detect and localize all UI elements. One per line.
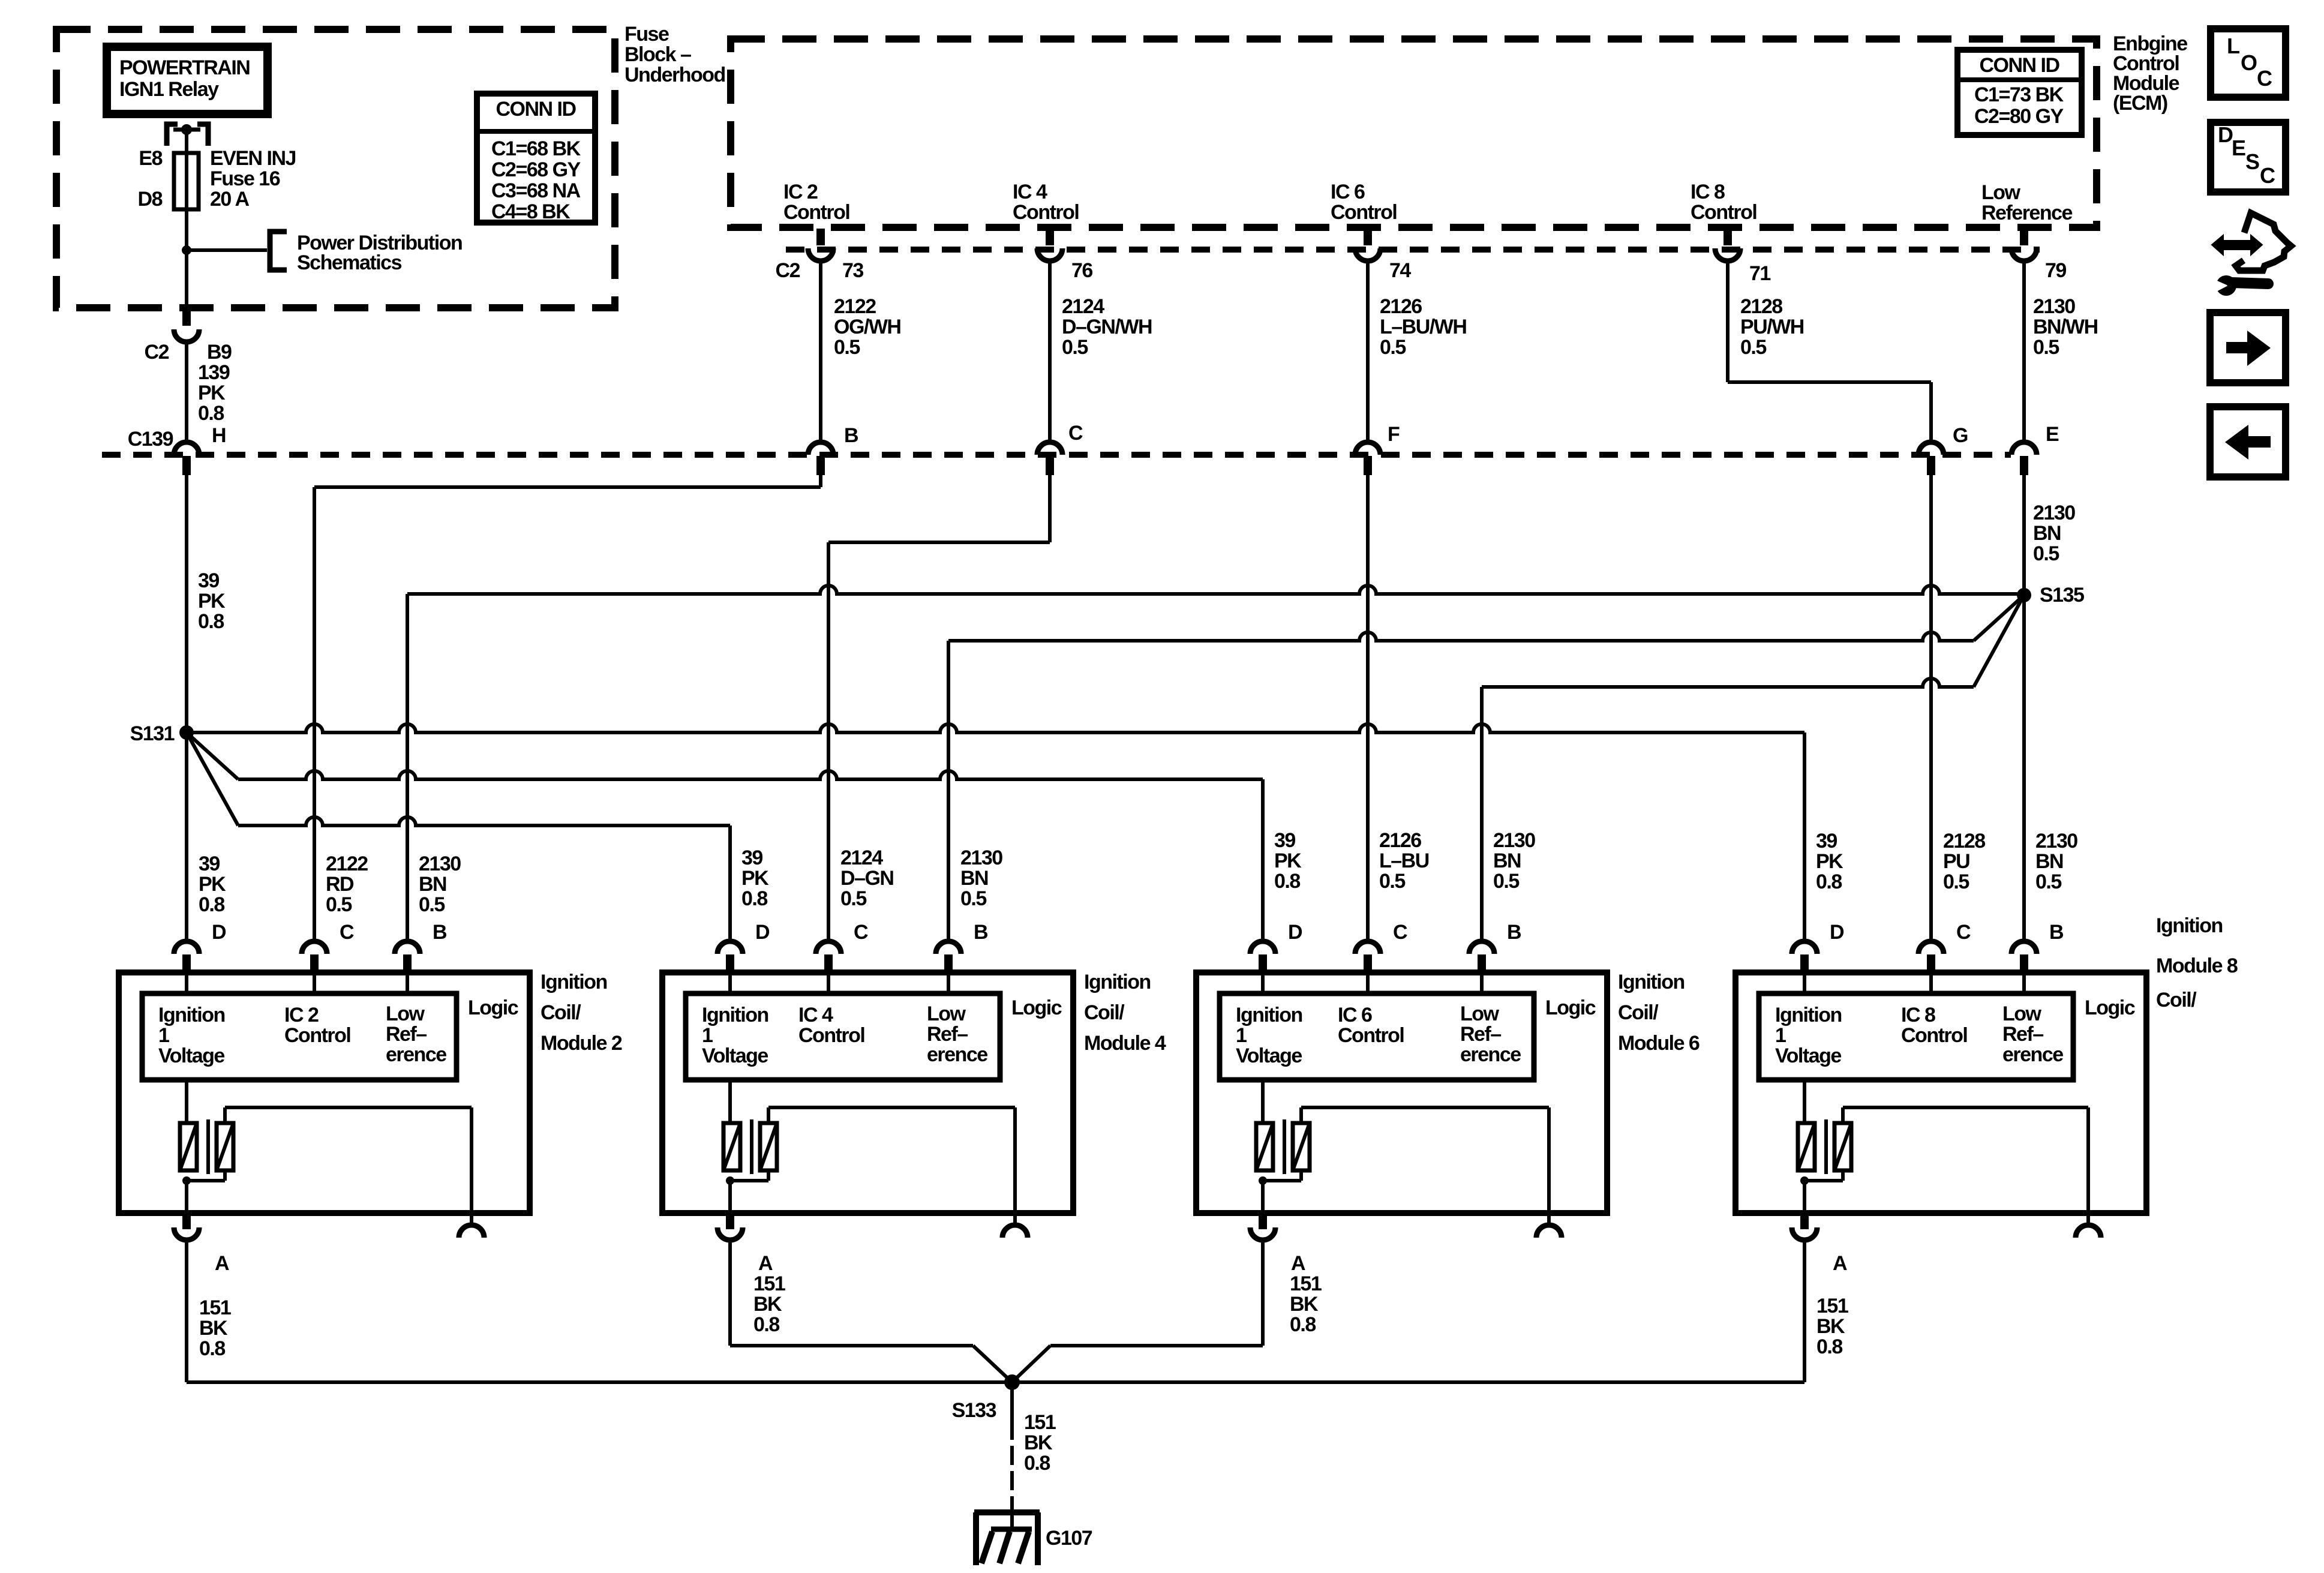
svg-text:IC 2: IC 2	[284, 1004, 319, 1026]
svg-text:2130: 2130	[2035, 830, 2077, 852]
svg-text:C: C	[1068, 422, 1083, 445]
svg-text:BN: BN	[960, 867, 988, 890]
svg-text:2122: 2122	[834, 295, 876, 318]
svg-text:C2=68 GY: C2=68 GY	[491, 158, 581, 181]
node relay output	[181, 124, 192, 135]
coil core module 2	[206, 1119, 210, 1174]
svg-text:A: A	[758, 1252, 773, 1275]
svg-text:2130: 2130	[419, 852, 461, 875]
svg-text:C1=73 BK: C1=73 BK	[1974, 83, 2064, 106]
wire 139 PK from fuse block	[185, 342, 188, 442]
svg-text:H: H	[212, 424, 226, 447]
wire 39 PK S131 to module6 D	[187, 733, 238, 779]
module 4 pin D connector	[717, 941, 743, 954]
svg-text:Coil/: Coil/	[1084, 1001, 1125, 1024]
wire 151 BK module8 A down	[1803, 1240, 1806, 1382]
svg-text:Logic: Logic	[1545, 996, 1596, 1019]
svg-text:S131: S131	[130, 722, 175, 745]
module 4 pin A connector	[726, 1213, 734, 1229]
svg-text:B: B	[2049, 921, 2064, 944]
svg-text:Control: Control	[1338, 1024, 1404, 1047]
module 8 logic block	[1803, 972, 1806, 993]
wire secondary bottom junction module 2	[223, 1170, 227, 1181]
svg-text:71: 71	[1749, 262, 1770, 285]
svg-text:E8: E8	[139, 147, 162, 170]
svg-text:B: B	[1507, 921, 1521, 944]
ignition coil/module 4	[662, 972, 1073, 1213]
wire 39 PK S131 to module8 D	[187, 724, 1804, 733]
ECM CONN ID table	[1957, 50, 2082, 135]
svg-text:PU/WH: PU/WH	[1740, 316, 1804, 338]
svg-text:Ignition: Ignition	[158, 1004, 225, 1026]
coil secondary winding module 8	[1834, 1123, 1851, 1170]
module 2 logic block	[185, 972, 188, 993]
node fuse output junction	[182, 245, 191, 255]
svg-text:2126: 2126	[1380, 295, 1422, 318]
wire 151 BK S133 to ground	[1010, 1389, 1014, 1440]
module 8 pin C connector	[1918, 941, 1944, 954]
svg-text:Control: Control	[1901, 1024, 1967, 1047]
ECM pin 73 connector	[816, 229, 825, 245]
svg-text:39: 39	[741, 846, 762, 869]
svg-text:151: 151	[199, 1296, 231, 1319]
module 4 pin B connector	[936, 941, 961, 954]
splice S131	[179, 725, 194, 740]
icon arrow right box	[2210, 313, 2286, 383]
svg-text:151: 151	[1024, 1411, 1056, 1434]
wire module2 low reference to S135	[406, 594, 409, 941]
svg-text:0.5: 0.5	[1062, 336, 1088, 359]
svg-text:E: E	[2232, 136, 2245, 160]
svg-text:2128: 2128	[1943, 830, 1985, 852]
svg-text:D: D	[1288, 921, 1302, 944]
svg-text:Coil/: Coil/	[2156, 989, 2197, 1011]
wire 151 BK module6 A jog	[1261, 1240, 1265, 1346]
svg-text:CONN ID: CONN ID	[496, 98, 576, 121]
svg-text:2126: 2126	[1379, 829, 1421, 852]
C139 pin F	[1355, 442, 1380, 455]
connector C2 fuse block exit	[182, 307, 191, 326]
module 4 logic block	[728, 972, 732, 993]
svg-text:0.5: 0.5	[419, 893, 445, 916]
C139 pin H	[174, 442, 199, 455]
svg-text:BN/WH: BN/WH	[2033, 316, 2098, 338]
svg-text:A: A	[1291, 1252, 1305, 1275]
wire secondary bottom junction module 6	[1299, 1170, 1303, 1181]
svg-text:0.8: 0.8	[1274, 870, 1300, 893]
svg-text:0.5: 0.5	[1943, 870, 1969, 893]
svg-text:1: 1	[158, 1024, 169, 1047]
ECM pin 74 connector	[1364, 229, 1372, 245]
svg-text:39: 39	[199, 852, 220, 875]
svg-text:E: E	[2046, 423, 2059, 446]
svg-text:PU: PU	[1943, 850, 1969, 873]
C139 pin E	[2011, 442, 2037, 455]
svg-text:Fuse: Fuse	[624, 23, 669, 46]
relay contact bracket	[167, 124, 178, 146]
svg-text:OG/WH: OG/WH	[834, 316, 900, 338]
svg-text:Module 8: Module 8	[2156, 954, 2238, 977]
svg-text:1: 1	[1775, 1024, 1786, 1047]
svg-text:Block –: Block –	[624, 43, 691, 66]
coil core module 4	[750, 1119, 753, 1174]
icon wrench	[2216, 275, 2236, 296]
wire 39 PK S131 to module4 D	[187, 733, 238, 825]
svg-text:PK: PK	[199, 873, 226, 896]
svg-text:74: 74	[1389, 259, 1411, 282]
C139 pin B	[808, 442, 833, 455]
svg-text:Coil/: Coil/	[541, 1001, 581, 1024]
wire 2126 L-BU F to module6 C	[1366, 475, 1370, 941]
svg-text:G107: G107	[1046, 1527, 1092, 1550]
svg-text:C2: C2	[145, 341, 169, 364]
svg-text:Control: Control	[798, 1024, 864, 1047]
svg-text:D: D	[1830, 921, 1844, 944]
svg-text:O: O	[2241, 50, 2257, 75]
module 2 spark output connector	[470, 1213, 473, 1225]
C139 pin G	[1918, 442, 1944, 455]
svg-text:0.5: 0.5	[1380, 336, 1406, 359]
wire relay to fuse	[185, 130, 188, 307]
svg-text:Voltage: Voltage	[158, 1044, 224, 1067]
svg-text:Logic: Logic	[1011, 996, 1062, 1019]
svg-text:Control: Control	[783, 201, 849, 224]
coil secondary winding module 4	[760, 1123, 777, 1170]
fuse F16 EVEN INJ 20A	[174, 153, 199, 209]
ECM pin 71 connector	[1724, 229, 1732, 245]
svg-text:0.5: 0.5	[2035, 870, 2061, 893]
svg-text:C: C	[1393, 921, 1407, 944]
fuse block CONN ID table	[477, 94, 595, 223]
svg-text:Control: Control	[1691, 201, 1756, 224]
wire Low Reference to C139 E	[2022, 261, 2026, 442]
svg-text:0.5: 0.5	[1379, 870, 1405, 893]
svg-text:Low: Low	[1460, 1002, 1500, 1025]
svg-text:D–GN/WH: D–GN/WH	[1062, 316, 1152, 338]
wire to power distribution ref	[187, 248, 267, 252]
svg-text:39: 39	[1816, 830, 1837, 852]
svg-text:C4=8 BK: C4=8 BK	[491, 200, 571, 223]
svg-text:2124: 2124	[840, 846, 883, 869]
svg-text:Control: Control	[1013, 201, 1079, 224]
svg-text:erence: erence	[927, 1043, 987, 1066]
svg-text:G: G	[1953, 424, 1968, 447]
svg-text:151: 151	[1290, 1272, 1322, 1295]
coil core module 8	[1824, 1119, 1828, 1174]
svg-text:151: 151	[753, 1272, 785, 1295]
module 2 pin C connector	[302, 941, 327, 954]
svg-text:0.5: 0.5	[2033, 542, 2059, 565]
svg-text:D8: D8	[138, 188, 163, 211]
svg-text:IC 4: IC 4	[798, 1004, 833, 1026]
svg-text:B: B	[844, 424, 858, 447]
svg-text:BK: BK	[1290, 1293, 1319, 1316]
svg-text:S: S	[2245, 149, 2259, 174]
relay K POWERTRAIN IGN1 Relay box	[107, 47, 268, 114]
svg-text:0.5: 0.5	[960, 887, 986, 910]
svg-text:0.5: 0.5	[834, 336, 860, 359]
svg-text:Schematics: Schematics	[297, 251, 402, 274]
module 6 spark output connector	[1547, 1213, 1551, 1225]
wire 151 BK module2 A down	[185, 1240, 188, 1382]
svg-text:Logic: Logic	[468, 996, 518, 1019]
svg-text:Ignition: Ignition	[1084, 971, 1151, 993]
ignition coil/module 6	[1196, 972, 1607, 1213]
svg-text:IC 6: IC 6	[1331, 181, 1365, 203]
icon vehicle outline	[2236, 213, 2291, 271]
svg-text:CONN ID: CONN ID	[1979, 54, 2059, 77]
svg-text:A: A	[215, 1252, 229, 1275]
svg-text:C: C	[340, 921, 354, 944]
svg-text:76: 76	[1071, 259, 1092, 282]
svg-text:1: 1	[1236, 1024, 1247, 1047]
svg-text:C139: C139	[128, 428, 173, 451]
svg-text:2128: 2128	[1740, 295, 1782, 318]
svg-text:B: B	[974, 921, 988, 944]
wire 2130 BN E to S135 to module8 B	[2022, 475, 2026, 941]
wire secondary bottom junction module 8	[1841, 1170, 1845, 1181]
wire 151 BK ground bus	[187, 1380, 1804, 1384]
svg-text:0.8: 0.8	[1816, 1335, 1842, 1358]
svg-text:L–BU/WH: L–BU/WH	[1380, 316, 1466, 338]
svg-text:Low: Low	[1981, 181, 2021, 204]
svg-text:0.8: 0.8	[1024, 1452, 1050, 1475]
coil secondary winding module 6	[1293, 1123, 1310, 1170]
module 6 pin D connector	[1250, 941, 1275, 954]
svg-text:IC 4: IC 4	[1013, 181, 1047, 203]
icon arrow left box	[2210, 407, 2286, 477]
svg-text:IC 2: IC 2	[783, 181, 818, 203]
ground G107	[974, 1509, 1040, 1515]
svg-text:2124: 2124	[1062, 295, 1104, 318]
svg-text:0.5: 0.5	[1493, 870, 1519, 893]
C139 pin C	[1037, 442, 1062, 455]
svg-text:D: D	[2218, 122, 2233, 147]
icon double arrow	[2212, 235, 2262, 255]
svg-text:0.5: 0.5	[840, 887, 866, 910]
module 4 pin C connector	[816, 941, 841, 954]
module 6 pin C connector	[1355, 941, 1380, 954]
wire 2128 PU G to module8 C	[1929, 475, 1933, 941]
svg-text:Module 6: Module 6	[1618, 1032, 1700, 1055]
svg-text:PK: PK	[741, 867, 769, 890]
coil primary winding module 2	[185, 1080, 188, 1123]
svg-text:BK: BK	[199, 1317, 228, 1340]
svg-text:0.8: 0.8	[1816, 870, 1842, 893]
svg-text:Ignition: Ignition	[1618, 971, 1685, 993]
svg-text:Underhood: Underhood	[624, 64, 725, 86]
wire IC4 control to C139 C	[1048, 261, 1052, 442]
svg-text:C: C	[2260, 163, 2275, 188]
svg-text:L: L	[2227, 34, 2239, 58]
svg-text:C3=68 NA: C3=68 NA	[491, 179, 581, 202]
wire 2124 D-GN jog C to module4 C	[1048, 475, 1052, 542]
svg-text:Ignition: Ignition	[2156, 914, 2223, 937]
svg-text:Low: Low	[927, 1002, 966, 1025]
svg-text:151: 151	[1816, 1295, 1848, 1317]
svg-text:Ref–: Ref–	[927, 1023, 968, 1046]
svg-text:0.5: 0.5	[326, 893, 352, 916]
module 2 pin D connector	[174, 941, 199, 954]
module 8 pin A connector	[1800, 1213, 1809, 1229]
ignition coil/module 8	[1736, 972, 2146, 1213]
svg-text:PK: PK	[198, 590, 226, 613]
svg-text:0.8: 0.8	[198, 610, 224, 633]
wire secondary top to output module 4	[767, 1107, 770, 1123]
svg-text:D: D	[212, 921, 226, 944]
svg-text:Module 2: Module 2	[541, 1032, 622, 1055]
module 6 pin A connector	[1259, 1213, 1267, 1229]
wire 2122 RD jog B to module2 C	[819, 475, 822, 487]
coil primary winding module 4	[728, 1080, 732, 1123]
svg-text:B: B	[433, 921, 447, 944]
svg-text:IGN1 Relay: IGN1 Relay	[119, 78, 219, 101]
svg-text:Ignition: Ignition	[1236, 1004, 1302, 1026]
svg-text:erence: erence	[386, 1043, 446, 1066]
svg-text:73: 73	[842, 259, 863, 282]
svg-text:Ignition: Ignition	[541, 971, 607, 993]
svg-text:BN: BN	[2035, 850, 2063, 873]
svg-text:C2: C2	[776, 259, 800, 282]
svg-text:PK: PK	[1816, 850, 1843, 873]
coil secondary winding module 2	[217, 1123, 233, 1170]
svg-text:39: 39	[198, 569, 219, 592]
module 2 pin B connector	[395, 941, 420, 954]
ECM pin 79 connector	[2020, 229, 2028, 245]
svg-text:D: D	[755, 921, 770, 944]
svg-text:Ignition: Ignition	[1775, 1004, 1842, 1026]
svg-text:139: 139	[198, 361, 230, 384]
bracket power distribution reference	[270, 232, 287, 270]
svg-text:IC 8: IC 8	[1691, 181, 1725, 203]
svg-text:0.8: 0.8	[753, 1313, 779, 1336]
connector C139 dotted line	[102, 452, 2011, 458]
svg-text:Control: Control	[284, 1024, 350, 1047]
wire 151 BK module4 A jog	[728, 1240, 732, 1346]
splice S133	[1004, 1374, 1020, 1390]
svg-text:C: C	[854, 921, 868, 944]
svg-text:2130: 2130	[960, 846, 1002, 869]
svg-text:BK: BK	[753, 1293, 782, 1316]
svg-text:79: 79	[2045, 259, 2066, 282]
svg-text:D–GN: D–GN	[840, 867, 893, 890]
svg-text:Voltage: Voltage	[1775, 1044, 1841, 1067]
wire 39 PK main feed H to S131 to module2 D	[185, 475, 188, 941]
icon LOC box	[2211, 29, 2286, 97]
svg-text:erence: erence	[1460, 1043, 1521, 1066]
svg-text:B9: B9	[207, 341, 232, 364]
svg-text:0.5: 0.5	[1740, 336, 1766, 359]
svg-text:C: C	[2257, 66, 2272, 91]
svg-text:20 A: 20 A	[210, 188, 250, 211]
module 6 pin B connector	[1469, 941, 1494, 954]
wire IC8 control jog to C139 G	[1726, 261, 1730, 382]
svg-text:L–BU: L–BU	[1379, 849, 1429, 872]
svg-text:RD: RD	[326, 873, 354, 896]
module 6 logic block	[1261, 972, 1265, 993]
coil primary winding module 8	[1803, 1080, 1806, 1123]
svg-text:Reference: Reference	[1981, 202, 2073, 224]
module 8 pin B connector	[2011, 941, 2037, 954]
ignition coil/module 2	[119, 972, 530, 1213]
svg-text:2130: 2130	[2033, 295, 2075, 318]
wire secondary top to output module 6	[1299, 1107, 1303, 1123]
svg-text:0.8: 0.8	[199, 893, 224, 916]
svg-text:Logic: Logic	[2085, 996, 2135, 1019]
svg-text:Ref–: Ref–	[1460, 1023, 1501, 1046]
module 2 pin A connector	[182, 1213, 191, 1229]
svg-text:BK: BK	[1816, 1315, 1845, 1338]
splice S135	[2017, 588, 2031, 602]
svg-text:Low: Low	[2002, 1002, 2042, 1025]
svg-text:Voltage: Voltage	[702, 1044, 768, 1067]
fuse block underhood dashed box	[56, 29, 615, 308]
wire secondary top to output module 2	[223, 1107, 227, 1123]
wire secondary top to output module 8	[1841, 1107, 1845, 1123]
svg-text:0.8: 0.8	[198, 402, 224, 425]
svg-text:IC 6: IC 6	[1338, 1004, 1372, 1026]
svg-text:C: C	[1956, 921, 1971, 944]
svg-text:2130: 2130	[2033, 502, 2075, 524]
svg-text:Ref–: Ref–	[2002, 1023, 2043, 1046]
svg-text:Ignition: Ignition	[702, 1004, 768, 1026]
wire module6 low reference to S135	[1480, 687, 1484, 941]
svg-text:C1=68 BK: C1=68 BK	[491, 137, 581, 160]
svg-text:2122: 2122	[326, 852, 368, 875]
svg-text:0.8: 0.8	[1290, 1313, 1316, 1336]
svg-text:Coil/: Coil/	[1618, 1001, 1659, 1024]
module 8 pin D connector	[1792, 941, 1817, 954]
svg-text:BN: BN	[419, 873, 446, 896]
icon DESC box	[2211, 122, 2286, 192]
svg-text:1: 1	[702, 1024, 713, 1047]
svg-text:C2=80 GY: C2=80 GY	[1974, 105, 2064, 128]
svg-text:POWERTRAIN: POWERTRAIN	[119, 56, 250, 79]
svg-text:Control: Control	[1331, 201, 1397, 224]
svg-text:BK: BK	[1024, 1431, 1053, 1454]
wire module4 low reference to S135	[947, 641, 950, 941]
svg-text:erence: erence	[2002, 1043, 2063, 1066]
module 4 spark output connector	[1013, 1213, 1017, 1225]
svg-text:Low: Low	[386, 1002, 425, 1025]
ECM pin 76 connector	[1046, 229, 1054, 245]
coil core module 6	[1283, 1119, 1286, 1174]
svg-text:0.8: 0.8	[199, 1337, 225, 1360]
svg-text:A: A	[1833, 1252, 1847, 1275]
ECM connector dotted line C1/C2	[786, 247, 2040, 253]
svg-text:PK: PK	[198, 382, 226, 404]
svg-text:0.8: 0.8	[741, 887, 767, 910]
svg-text:F: F	[1388, 423, 1400, 446]
svg-text:Module 4: Module 4	[1084, 1032, 1166, 1055]
svg-text:2130: 2130	[1493, 829, 1535, 852]
svg-text:IC 8: IC 8	[1901, 1004, 1935, 1026]
svg-text:PK: PK	[1274, 849, 1302, 872]
module 8 spark output connector	[2086, 1213, 2090, 1225]
svg-text:Voltage: Voltage	[1236, 1044, 1302, 1067]
svg-text:0.5: 0.5	[2033, 336, 2059, 359]
coil primary winding module 6	[1261, 1080, 1265, 1123]
svg-text:(ECM): (ECM)	[2113, 92, 2167, 115]
svg-text:S135: S135	[2040, 584, 2084, 607]
ECM dashed box	[731, 39, 2097, 227]
svg-text:39: 39	[1274, 829, 1295, 852]
wire secondary bottom junction module 4	[767, 1170, 770, 1181]
svg-text:BN: BN	[1493, 849, 1521, 872]
svg-text:BN: BN	[2033, 522, 2061, 545]
wire IC6 control to C139 F	[1366, 261, 1370, 442]
wire IC2 control to C139 B	[819, 261, 822, 442]
